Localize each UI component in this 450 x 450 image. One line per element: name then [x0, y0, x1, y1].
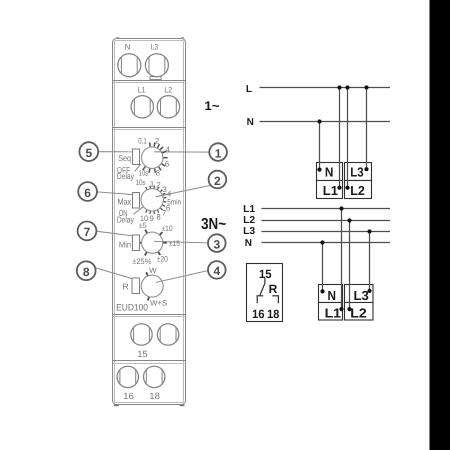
svg-text:L3: L3 [354, 288, 369, 303]
svg-text:EUD100: EUD100 [116, 302, 148, 313]
svg-text:L1: L1 [323, 183, 338, 198]
svg-text:±5: ±5 [139, 221, 147, 230]
svg-text:Max: Max [118, 197, 132, 207]
svg-text:16: 16 [252, 307, 265, 321]
svg-text:L1: L1 [243, 204, 256, 215]
svg-text:1: 1 [215, 146, 222, 160]
svg-text:8: 8 [156, 212, 160, 221]
svg-text:L2: L2 [243, 215, 256, 226]
svg-text:Seq: Seq [118, 153, 131, 163]
svg-text:N: N [328, 288, 337, 303]
svg-text:0,1: 0,1 [138, 136, 146, 145]
svg-text:9: 9 [150, 214, 154, 223]
svg-text:L2: L2 [350, 183, 365, 198]
svg-text:L2: L2 [350, 305, 367, 320]
svg-text:5: 5 [85, 146, 92, 160]
svg-text:Delay: Delay [117, 215, 134, 225]
svg-text:8: 8 [156, 168, 160, 177]
svg-text:±15: ±15 [169, 239, 181, 248]
svg-text:W+S: W+S [150, 299, 167, 308]
svg-text:16: 16 [123, 391, 134, 401]
svg-text:6: 6 [166, 203, 170, 212]
svg-text:±10: ±10 [162, 224, 174, 233]
svg-text:L1: L1 [138, 85, 146, 94]
svg-text:15: 15 [137, 349, 148, 359]
svg-text:L3: L3 [350, 164, 363, 179]
svg-text:10s: 10s [139, 168, 149, 177]
svg-text:1: 1 [150, 179, 154, 188]
svg-text:L2: L2 [164, 85, 172, 94]
svg-text:18: 18 [267, 307, 279, 321]
svg-text:L3: L3 [151, 42, 159, 51]
svg-text:Delay: Delay [117, 171, 135, 181]
svg-text:R: R [269, 282, 278, 296]
svg-text:4: 4 [166, 145, 171, 154]
svg-text:18: 18 [149, 391, 160, 401]
svg-text:7: 7 [84, 225, 91, 239]
svg-text:N: N [325, 164, 334, 179]
svg-text:8: 8 [83, 265, 90, 279]
svg-text:2: 2 [155, 136, 159, 145]
svg-text:R: R [122, 282, 128, 292]
svg-text:6: 6 [84, 186, 91, 200]
svg-text:4: 4 [213, 264, 220, 278]
svg-text:2: 2 [156, 181, 160, 190]
svg-text:1~: 1~ [204, 99, 219, 113]
svg-text:±20: ±20 [157, 255, 169, 264]
svg-text:L3: L3 [243, 226, 256, 237]
svg-text:3: 3 [213, 237, 220, 251]
svg-text:Min: Min [119, 239, 131, 249]
svg-text:7: 7 [162, 209, 166, 218]
svg-text:3N~: 3N~ [201, 216, 226, 233]
svg-text:L: L [246, 84, 252, 95]
svg-text:2: 2 [214, 174, 221, 188]
svg-text:10s: 10s [136, 178, 146, 187]
svg-text:L1: L1 [325, 305, 341, 320]
svg-text:N: N [125, 42, 131, 51]
svg-text:N: N [245, 238, 252, 249]
svg-text:6: 6 [165, 160, 169, 169]
svg-text:N: N [247, 117, 254, 128]
svg-text:W: W [149, 266, 157, 275]
